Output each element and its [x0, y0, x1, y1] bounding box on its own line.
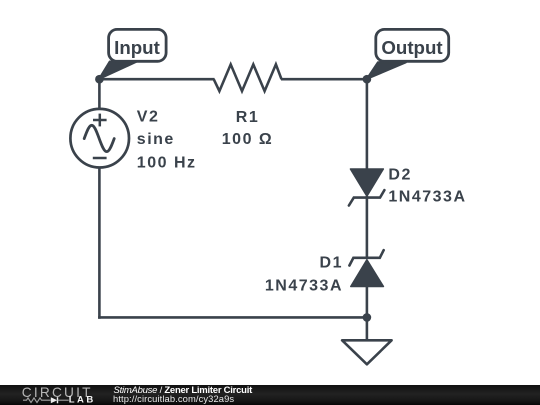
wire: zener D2 cathode to zener D1 cathode: [366, 196, 369, 258]
wire: bottom rail from V2 branch to ground junction: [98, 316, 367, 319]
zener diode D2: [349, 169, 385, 206]
junction: ground node: [363, 313, 372, 322]
label: D2 value 1N4733A: [388, 189, 466, 206]
svg-text:V2: V2: [137, 109, 160, 126]
zener diode D1: [349, 250, 383, 286]
footer bar: [0, 385, 540, 405]
wire: resistor R1 right lead to Output node: [281, 78, 367, 81]
wire: Input node to resistor R1 left lead: [99, 78, 214, 81]
svg-text:100 Hz: 100 Hz: [137, 154, 197, 171]
label: D1 value 1N4733A: [265, 278, 343, 295]
svg-text:sine: sine: [137, 131, 175, 148]
svg-text:Input: Input: [114, 37, 160, 58]
label: V2 designator: [137, 109, 160, 126]
junction: Input node: [95, 75, 104, 84]
label: V2 frequency 100 Hz: [137, 154, 197, 171]
svg-text:100 Ω: 100 Ω: [222, 131, 273, 148]
label: R1 value 100 Ohm: [222, 131, 273, 148]
wire: Output node down to zener D2 anode: [366, 79, 369, 170]
svg-text:LAB: LAB: [69, 395, 96, 405]
svg-text:1N4733A: 1N4733A: [265, 278, 343, 295]
resistor R1: [214, 64, 282, 91]
flag Input: [99, 29, 166, 79]
CircuitLab logo: CIRCUIT wordmark: [22, 385, 93, 400]
label: V2 type sine: [137, 131, 175, 148]
svg-text:D1: D1: [320, 255, 343, 272]
svg-text:http://circuitlab.com/cy32a9s: http://circuitlab.com/cy32a9s: [113, 393, 234, 404]
svg-text:R1: R1: [236, 109, 259, 126]
svg-text:Output: Output: [381, 37, 442, 58]
wire: zener D1 anode down to ground junction: [366, 286, 369, 340]
svg-text:D2: D2: [388, 167, 411, 184]
wire: Input node down to V2 top terminal: [98, 79, 101, 110]
footer title line: [114, 385, 254, 396]
wire: V2 bottom terminal down to bottom rail: [98, 167, 101, 319]
junction: Output node: [363, 75, 372, 84]
svg-text:1N4733A: 1N4733A: [388, 189, 466, 206]
CircuitLab logo: resistor-diode glyph: [23, 397, 69, 403]
voltage source V2: [70, 109, 129, 168]
CircuitLab logo: LAB wordmark: [69, 395, 96, 405]
label: D1 designator: [320, 255, 343, 272]
label: D2 designator: [388, 167, 411, 184]
footer url line: [113, 393, 234, 404]
label: R1 designator: [236, 109, 259, 126]
ground: [342, 340, 392, 364]
flag Output: [367, 29, 449, 79]
